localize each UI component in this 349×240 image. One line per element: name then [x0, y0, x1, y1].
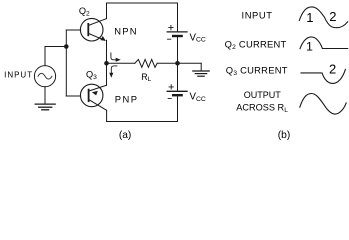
- svg-text:OUTPUT: OUTPUT: [244, 90, 281, 100]
- svg-text:2: 2: [329, 9, 336, 24]
- wire bottom return: [107, 121, 178, 123]
- wire Q2 collector to VCC1: [107, 3, 178, 32]
- svg-text:PNP: PNP: [115, 93, 137, 104]
- svg-text:2: 2: [329, 61, 336, 76]
- svg-text:Q2 CURRENT: Q2 CURRENT: [225, 38, 287, 51]
- ground (supply): [193, 63, 209, 76]
- wire base rail: [65, 30, 67, 96]
- svg-text:ACROSS RL: ACROSS RL: [236, 103, 288, 115]
- wire Q3 base: [66, 95, 80, 97]
- node emitter junction: [104, 61, 109, 66]
- transistor Q2: [80, 18, 106, 41]
- wire resistor to supply node: [157, 62, 201, 64]
- svg-text:Q3 CURRENT: Q3 CURRENT: [226, 64, 288, 77]
- wire node to Q3 emitter: [106, 63, 108, 85]
- wire Q3 collector to bottom rail: [106, 110, 108, 121]
- current arrow Q3: [109, 66, 117, 78]
- svg-text:VCC: VCC: [190, 32, 206, 43]
- svg-text:(a): (a): [119, 130, 131, 141]
- wire VCC1 to supply node: [177, 36, 179, 63]
- node base junction: [64, 44, 69, 49]
- input source V1: [34, 66, 55, 87]
- waveform Q2 current: [300, 37, 348, 49]
- resistor RL: [135, 59, 157, 67]
- svg-text:VCC: VCC: [190, 92, 206, 103]
- ground (input): [35, 87, 55, 110]
- waveform input sine: [299, 7, 347, 28]
- svg-text:1: 1: [306, 39, 313, 53]
- waveform Q3 current: [301, 69, 345, 83]
- svg-text:1: 1: [306, 10, 313, 25]
- battery VCC2: [167, 85, 187, 99]
- waveform output sine: [300, 94, 346, 115]
- wire input to base junction: [45, 47, 66, 66]
- svg-text:NPN: NPN: [114, 25, 136, 36]
- current arrow Q2: [111, 53, 121, 62]
- wire supply node to VCC2: [177, 63, 179, 91]
- wire node to resistor: [107, 62, 135, 64]
- wire VCC2 to bottom rail: [177, 95, 179, 121]
- battery VCC1: [167, 25, 187, 39]
- svg-text:RL: RL: [141, 72, 151, 83]
- svg-text:Q2: Q2: [79, 6, 90, 18]
- svg-text:INPUT: INPUT: [4, 71, 32, 80]
- wire Q2 base: [66, 29, 80, 31]
- svg-text:Q3: Q3: [86, 69, 97, 81]
- wire Q2 emitter to node: [106, 40, 108, 63]
- svg-text:INPUT: INPUT: [242, 10, 273, 21]
- node supply junction: [175, 61, 180, 66]
- svg-text:(b): (b): [278, 130, 290, 141]
- transistor Q3: [80, 84, 106, 110]
